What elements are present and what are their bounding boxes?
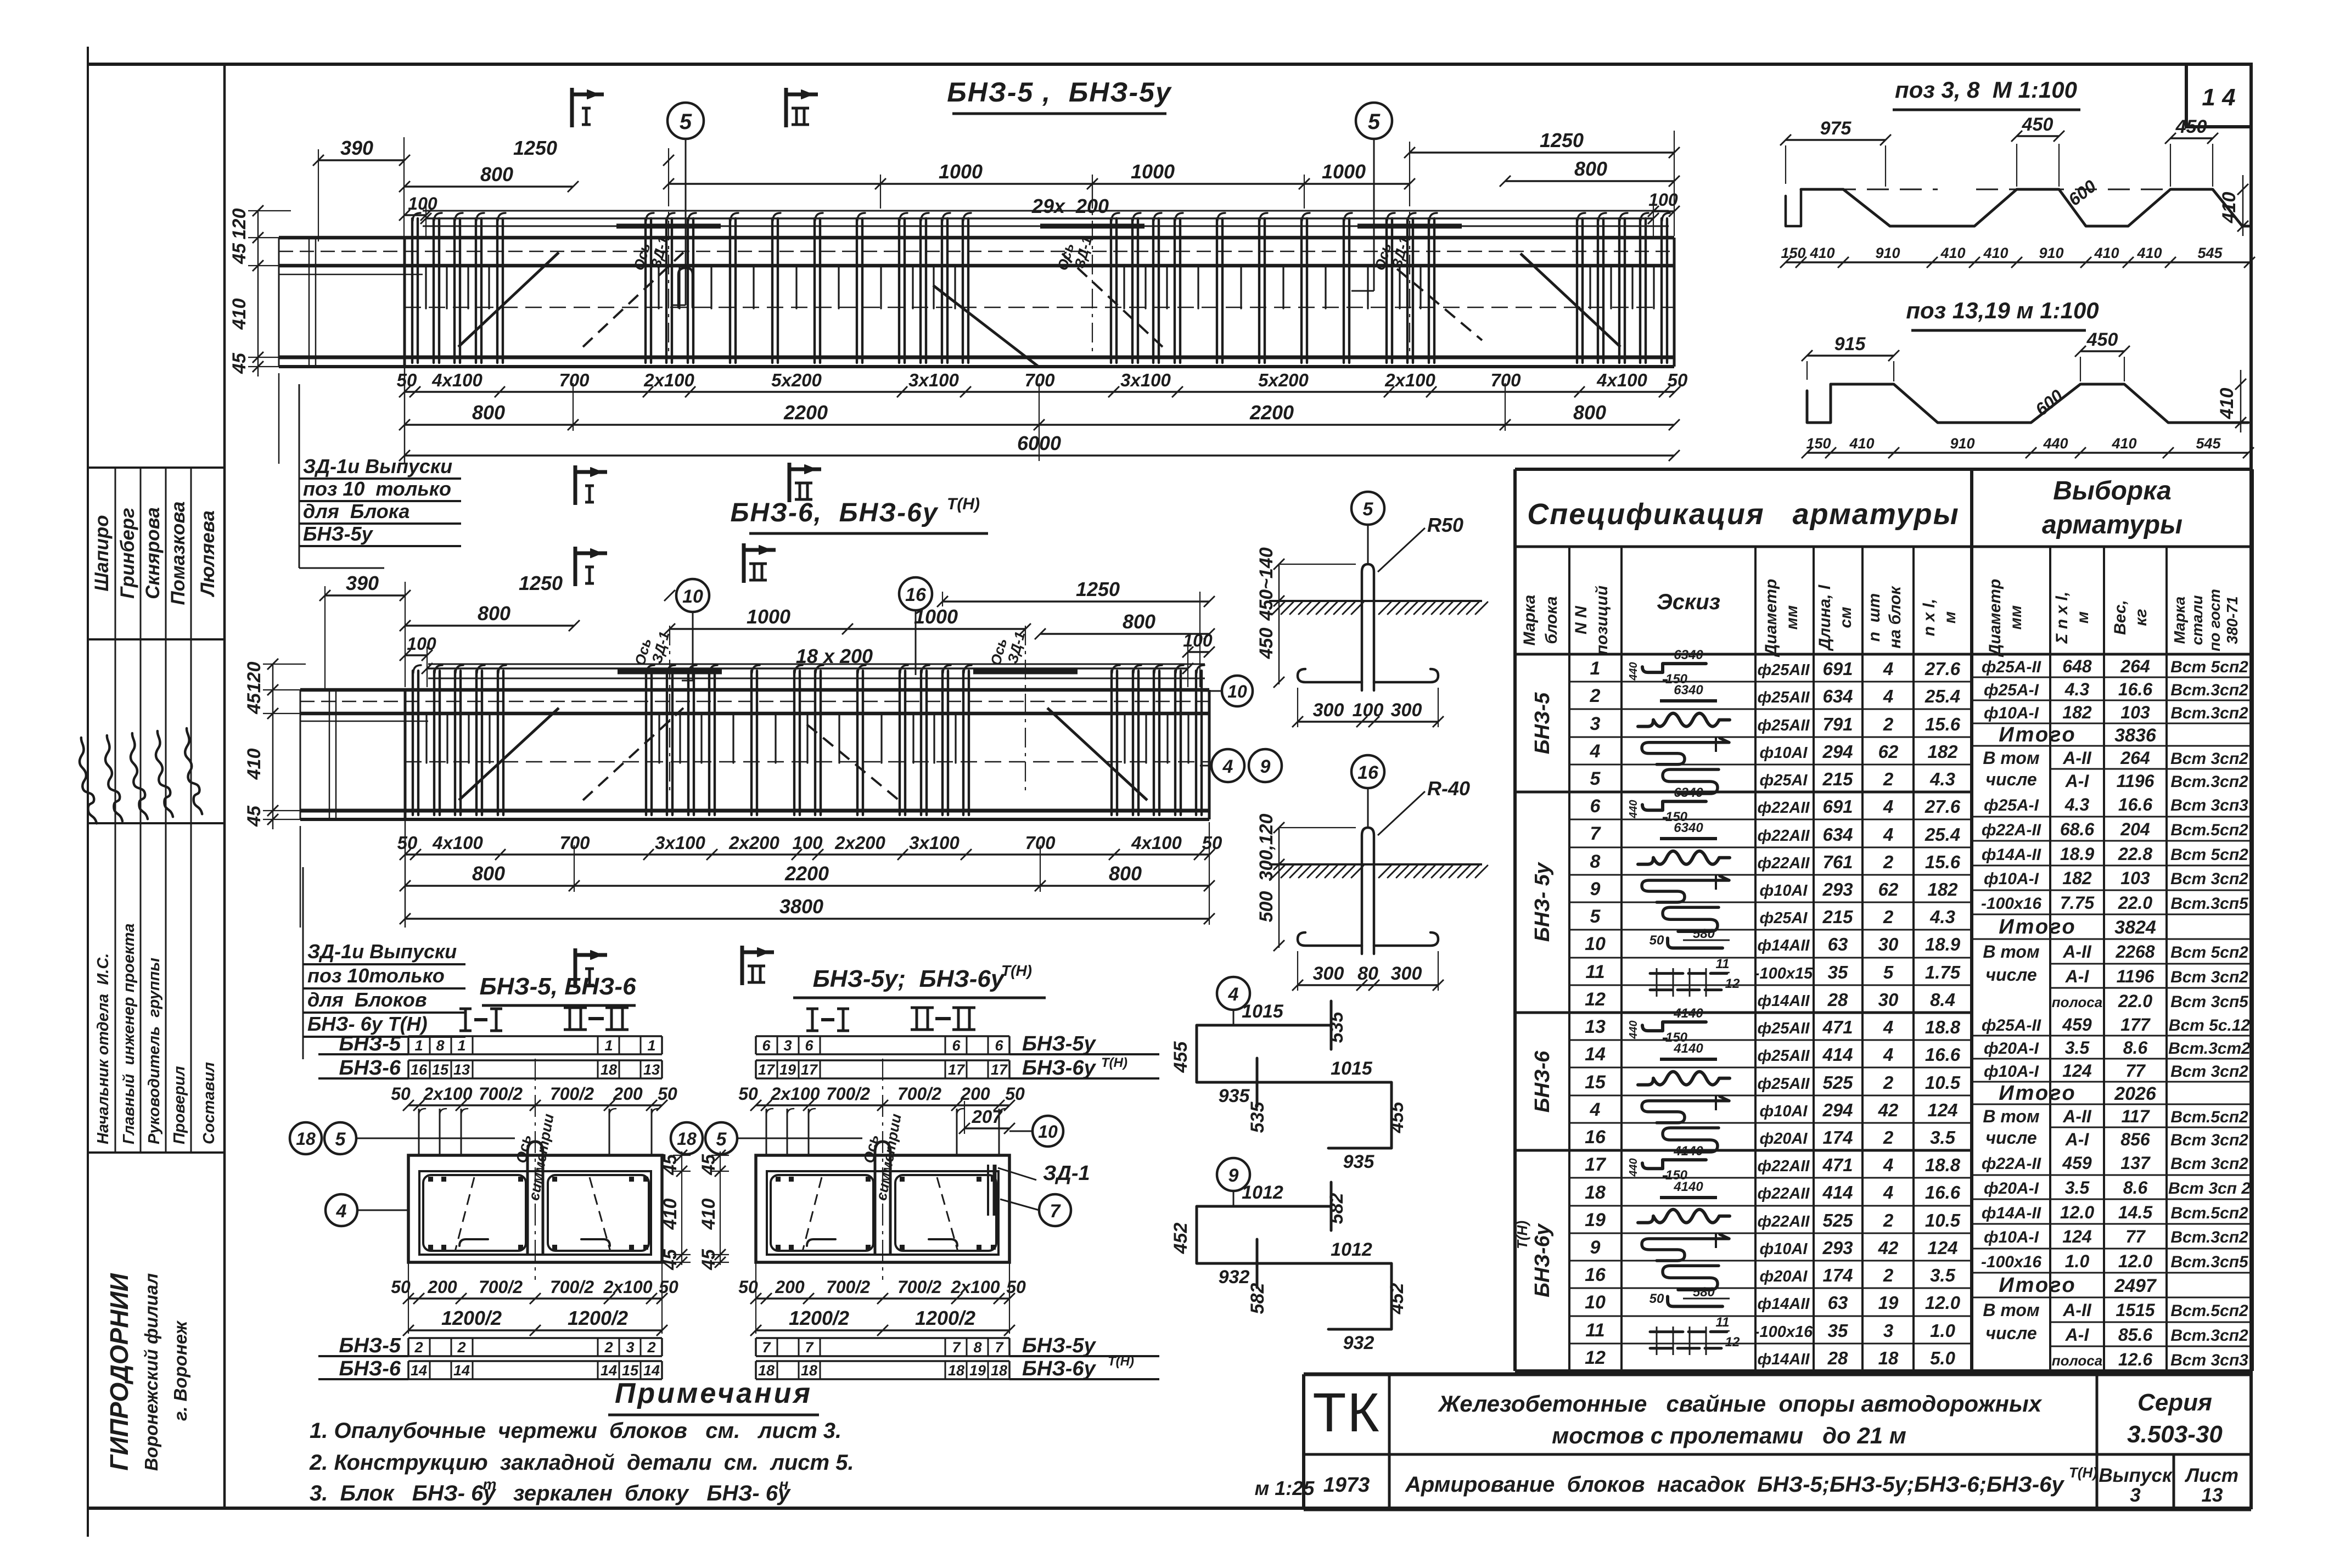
svg-text:Вст.5сп2: Вст.5сп2 — [2170, 821, 2248, 839]
section vertical dims 45 410 45 — [681, 1151, 682, 1265]
svg-text:120: 120 — [229, 209, 250, 240]
svg-text:856: 856 — [2120, 1129, 2150, 1149]
svg-text:5: 5 — [1368, 110, 1381, 134]
svg-text:450: 450 — [2022, 114, 2054, 135]
svg-text:Вст.3сп2: Вст.3сп2 — [2170, 681, 2248, 699]
svg-text:Т(Н): Т(Н) — [1101, 1055, 1127, 1070]
svg-text:16: 16 — [905, 585, 927, 605]
svg-text:535: 535 — [1326, 1011, 1347, 1043]
section outer box — [756, 1155, 1009, 1262]
svg-text:числе: числе — [1985, 1323, 2036, 1343]
svg-text:ф22АII: ф22АII — [1758, 855, 1810, 872]
svg-text:ф25АII: ф25АII — [1758, 1020, 1810, 1037]
svg-text:19: 19 — [1878, 1292, 1899, 1313]
svg-text:БНЗ-5: БНЗ-5 — [339, 1334, 401, 1357]
svg-text:Вст.5сп2: Вст.5сп2 — [2170, 1108, 2248, 1126]
section callout circles left — [290, 1122, 322, 1154]
svg-text:410: 410 — [2136, 245, 2162, 261]
svg-text:-100х16: -100х16 — [1981, 895, 2041, 913]
svg-text:62: 62 — [1878, 879, 1899, 900]
svg-text:по гост: по гост — [2206, 589, 2223, 651]
svg-text:3: 3 — [2130, 1485, 2141, 1506]
dim 100 left — [405, 214, 426, 216]
svg-text:1200/2: 1200/2 — [441, 1307, 502, 1329]
svg-text:ф10АI: ф10АI — [1760, 882, 1808, 900]
svg-text:Шапиро: Шапиро — [91, 515, 113, 591]
svg-text:264: 264 — [2120, 748, 2150, 768]
svg-text:7: 7 — [1050, 1201, 1062, 1222]
svg-text:5: 5 — [1363, 499, 1374, 520]
svg-text:14: 14 — [601, 1362, 617, 1379]
svg-text:45: 45 — [229, 352, 250, 374]
svg-text:ф22АII: ф22АII — [1758, 1157, 1810, 1175]
svg-text:Итого: Итого — [1999, 1274, 2076, 1297]
svg-text:12.0: 12.0 — [1925, 1292, 1961, 1313]
svg-text:Вст 3сп2: Вст 3сп2 — [2170, 968, 2248, 986]
svg-text:455: 455 — [1387, 1101, 1407, 1134]
svg-text:ф25АII: ф25АII — [1758, 689, 1810, 706]
svg-text:6340: 6340 — [1674, 820, 1703, 835]
dim 100 mid left — [405, 654, 427, 656]
svg-text:8.6: 8.6 — [2123, 1178, 2148, 1198]
bent bar diagram pos 4 — [1217, 977, 1250, 1010]
svg-text:11: 11 — [1585, 1320, 1604, 1341]
svg-text:1250: 1250 — [513, 137, 557, 159]
svg-text:1973: 1973 — [1323, 1474, 1370, 1497]
svg-text:Армирование блоков насадок: Армирование блоков насадок БНЗ-5;БНЗ-5у;… — [1405, 1473, 2064, 1497]
svg-text:215: 215 — [1822, 907, 1853, 927]
svg-text:3х100: 3х100 — [655, 833, 705, 853]
svg-text:числе: числе — [1985, 1128, 2036, 1148]
svg-text:932: 932 — [1343, 1333, 1374, 1353]
svg-text:Вст 5сп2: Вст 5сп2 — [2170, 846, 2248, 864]
svg-text:ф25А-I: ф25А-I — [1984, 681, 2039, 699]
svg-text:10.5: 10.5 — [1925, 1072, 1961, 1093]
svg-text:4: 4 — [1222, 756, 1233, 777]
svg-text:471: 471 — [1822, 1017, 1853, 1037]
svg-text:700/2: 700/2 — [826, 1277, 870, 1297]
svg-text:1: 1 — [414, 1037, 423, 1054]
svg-text:103: 103 — [2120, 702, 2150, 722]
svg-text:11: 11 — [1716, 1315, 1730, 1330]
svg-text:17: 17 — [1585, 1154, 1607, 1175]
svg-text:1250: 1250 — [1076, 578, 1120, 600]
svg-text:БНЗ-6: БНЗ-6 — [1531, 1050, 1554, 1112]
bent-up bar diagonals БНЗ-5 — [458, 252, 559, 347]
svg-text:3х100: 3х100 — [908, 370, 959, 390]
title block frame — [1304, 1373, 2251, 1376]
svg-text:300: 300 — [1391, 700, 1422, 721]
svg-text:арматуры: арматуры — [2042, 510, 2182, 539]
svg-text:ф10АI: ф10АI — [1760, 1240, 1808, 1258]
svg-text:450: 450 — [2175, 116, 2207, 137]
svg-text:для Блока: для Блока — [303, 500, 409, 522]
svg-text:1015: 1015 — [1331, 1058, 1373, 1079]
svg-text:4: 4 — [1883, 824, 1893, 845]
svg-text:1196: 1196 — [2117, 771, 2155, 791]
svg-text:16.6: 16.6 — [2118, 679, 2152, 699]
svg-text:45: 45 — [244, 693, 265, 715]
svg-text:582: 582 — [1326, 1193, 1347, 1224]
svg-text:БНЗ-6у: БНЗ-6у — [1022, 1357, 1097, 1380]
svg-text:ГИПРОДОРНИИ: ГИПРОДОРНИИ — [105, 1273, 133, 1470]
svg-text:12: 12 — [1585, 989, 1606, 1010]
bent bar diagram pos 9 — [1217, 1158, 1250, 1191]
svg-text:50: 50 — [1649, 1291, 1664, 1306]
svg-text:Лист: Лист — [2184, 1465, 2238, 1486]
svg-text:2х200: 2х200 — [834, 833, 885, 853]
svg-text:ф14АII: ф14АII — [1758, 1295, 1810, 1313]
svg-text:77: 77 — [2125, 1061, 2146, 1081]
svg-text:700/2: 700/2 — [897, 1084, 941, 1104]
bottom hooks in section windows — [807, 1239, 835, 1246]
svg-text:300: 300 — [1313, 700, 1344, 721]
svg-text:3: 3 — [1590, 713, 1601, 734]
svg-text:390: 390 — [346, 572, 379, 594]
svg-text:414: 414 — [1822, 1044, 1853, 1065]
svg-text:28: 28 — [1827, 1348, 1848, 1368]
svg-text:910: 910 — [1875, 245, 1900, 261]
svg-text:177: 177 — [2120, 1015, 2151, 1035]
rebar dots in section — [776, 1177, 781, 1182]
axis of symmetry — [882, 1059, 883, 1280]
svg-text:410: 410 — [1983, 245, 2008, 261]
svg-text:440: 440 — [1628, 662, 1640, 681]
svg-text:294: 294 — [1822, 1100, 1853, 1120]
section callout circles right — [1033, 1116, 1063, 1147]
svg-text:5х200: 5х200 — [771, 370, 822, 390]
svg-text:3х100: 3х100 — [909, 833, 960, 853]
svg-text:12.6: 12.6 — [2118, 1350, 2152, 1369]
svg-text:БНЗ-6у: БНЗ-6у — [1531, 1223, 1554, 1297]
hanger bars pos 16 short drops БНЗ-6 — [427, 715, 1188, 763]
svg-text:452: 452 — [1170, 1223, 1191, 1255]
svg-text:БНЗ-5, БНЗ-6: БНЗ-5, БНЗ-6 — [479, 973, 636, 1000]
svg-text:410: 410 — [1940, 245, 1965, 261]
svg-text:полоса: полоса — [2052, 1352, 2102, 1369]
svg-text:блока: блока — [1542, 596, 1561, 644]
axis of symmetry — [535, 1059, 536, 1280]
svg-text:Вст 5сп2: Вст 5сп2 — [2170, 658, 2248, 676]
svg-text:9: 9 — [1228, 1165, 1239, 1186]
spec table rows — [1569, 681, 1972, 683]
svg-text:Вст.3сп5: Вст.3сп5 — [2170, 895, 2249, 913]
embed plate axes ЗД-1 on beam БНЗ-6 — [618, 670, 722, 675]
svg-text:Составил: Составил — [200, 1062, 218, 1144]
svg-text:1000: 1000 — [914, 605, 958, 628]
svg-text:100: 100 — [792, 833, 823, 853]
svg-text:535: 535 — [1247, 1101, 1268, 1133]
section labels I-I II-II right group — [806, 1008, 818, 1010]
svg-text:2х100: 2х100 — [643, 370, 694, 390]
svg-text:800: 800 — [1574, 158, 1607, 180]
svg-text:19: 19 — [779, 1061, 796, 1078]
profile поз 3,8 dims — [1786, 139, 1886, 140]
svg-text:11: 11 — [1585, 962, 1604, 982]
svg-text:691: 691 — [1822, 796, 1853, 817]
svg-text:1012: 1012 — [1331, 1239, 1372, 1260]
svg-text:1250: 1250 — [1540, 129, 1584, 151]
svg-text:440: 440 — [1628, 1158, 1640, 1177]
svg-text:62: 62 — [1878, 741, 1899, 762]
stamp column grid — [89, 467, 225, 469]
svg-text:ф25АII: ф25АII — [1758, 661, 1810, 679]
svg-text:18: 18 — [758, 1362, 775, 1379]
svg-text:1.75: 1.75 — [1925, 962, 1961, 982]
svg-text:БНЗ-5: БНЗ-5 — [1531, 692, 1554, 754]
svg-text:В том: В том — [1983, 748, 2040, 768]
svg-text:545: 545 — [2197, 245, 2223, 261]
svg-text:124: 124 — [2062, 1061, 2092, 1081]
svg-text:7: 7 — [762, 1339, 771, 1356]
dim 100 right — [1653, 210, 1674, 212]
svg-text:450: 450 — [2086, 329, 2118, 350]
svg-text:6340: 6340 — [1674, 683, 1703, 698]
svg-text:1200/2: 1200/2 — [789, 1307, 849, 1329]
svg-text:4: 4 — [1590, 1099, 1601, 1120]
svg-text:10.5: 10.5 — [1925, 1210, 1961, 1230]
svg-text:14.5: 14.5 — [2118, 1202, 2153, 1222]
svg-text:БНЗ-5у; БНЗ-6у: БНЗ-5у; БНЗ-6у — [813, 965, 1006, 992]
svg-text:15: 15 — [622, 1362, 639, 1379]
svg-text:Серия: Серия — [2137, 1389, 2212, 1416]
svg-text:13: 13 — [1585, 1016, 1606, 1037]
svg-text:12: 12 — [1585, 1347, 1606, 1368]
svg-text:Вст 5с.12: Вст 5с.12 — [2169, 1016, 2251, 1035]
svg-text:15: 15 — [432, 1061, 449, 1078]
svg-text:Помазкова: Помазкова — [167, 501, 189, 605]
svg-text:15.6: 15.6 — [1925, 852, 1961, 872]
extension lines mid beam bottom dims — [574, 845, 575, 892]
svg-text:124: 124 — [1927, 1100, 1957, 1120]
svg-text:Эскиз: Эскиз — [1657, 590, 1720, 614]
vertical dim chain 120 45 410 45 left of beam БНЗ-6 — [272, 664, 274, 829]
svg-text:3. Блок БНЗ- 6у: 3. Блок БНЗ- 6у — [310, 1481, 496, 1505]
svg-text:77: 77 — [2125, 1227, 2146, 1246]
extension lines mid beam dims — [324, 586, 326, 689]
svg-text:Вст 3сп2: Вст 3сп2 — [2170, 1063, 2248, 1081]
svg-text:см: см — [1837, 607, 1855, 628]
svg-text:800: 800 — [478, 602, 510, 625]
svg-text:124: 124 — [1927, 1238, 1957, 1258]
svg-text:18: 18 — [801, 1362, 817, 1379]
svg-text:3800: 3800 — [779, 895, 823, 918]
svg-text:5: 5 — [716, 1129, 727, 1150]
dim 800 mid right — [1040, 633, 1209, 634]
svg-text:68.6: 68.6 — [2060, 819, 2094, 839]
svg-text:29х 200: 29х 200 — [1031, 195, 1109, 217]
svg-text:Вст 3сп2: Вст 3сп2 — [2170, 1155, 2248, 1173]
central hairpin bar — [875, 1142, 890, 1254]
svg-text:16.6: 16.6 — [2118, 795, 2152, 814]
svg-text:452: 452 — [1387, 1283, 1407, 1315]
extension lines top beam dims — [318, 149, 319, 241]
svg-text:4х100: 4х100 — [431, 370, 482, 390]
svg-text:17: 17 — [948, 1061, 966, 1078]
svg-text:мостов с пролетами до 21 м: мостов с пролетами до 21 м — [1552, 1423, 1906, 1448]
svg-text:410: 410 — [2111, 435, 2136, 452]
svg-text:4: 4 — [336, 1201, 347, 1222]
svg-text:на блок: на блок — [1886, 586, 1904, 649]
svg-text:50: 50 — [397, 833, 418, 853]
stirrup spacing dim row БНЗ-6 — [405, 853, 1210, 855]
hook-zone bars (pos 10) — [423, 210, 1669, 212]
svg-text:25.4: 25.4 — [1925, 686, 1960, 706]
svg-text:200: 200 — [427, 1277, 457, 1297]
svg-text:932: 932 — [1219, 1267, 1250, 1288]
svg-text:2: 2 — [647, 1339, 655, 1356]
svg-text:2: 2 — [1883, 907, 1894, 927]
svg-text:18: 18 — [1878, 1348, 1899, 1368]
svg-text:Вст.5сп2: Вст.5сп2 — [2170, 1204, 2248, 1222]
svg-text:ф10А-I: ф10А-I — [1984, 704, 2039, 722]
svg-text:Марка: Марка — [1521, 595, 1539, 646]
svg-text:Выпуск: Выпуск — [2099, 1465, 2173, 1486]
svg-text:Скнярова: Скнярова — [142, 507, 164, 599]
svg-text:264: 264 — [2120, 656, 2150, 676]
hanger bars pos 5 short drops БНЗ-5 — [426, 267, 1654, 308]
embed plate axes ЗД-1 on beam БНЗ-5 — [616, 224, 721, 229]
svg-text:2: 2 — [1883, 1265, 1894, 1285]
svg-text:700/2: 700/2 — [550, 1084, 594, 1104]
dim 800 top right — [1505, 180, 1674, 182]
vertical dim chain 120 45 410 45 left of beam БНЗ-5 — [257, 211, 259, 376]
beam БНЗ-5 outline — [279, 236, 1674, 240]
svg-text:2: 2 — [1883, 852, 1894, 872]
svg-text:9: 9 — [1590, 1237, 1601, 1258]
svg-text:1200/2: 1200/2 — [915, 1307, 975, 1329]
svg-text:204: 204 — [2120, 819, 2150, 839]
svg-text:410: 410 — [2217, 388, 2237, 420]
svg-text:Итого: Итого — [1999, 723, 2076, 746]
svg-text:1.0: 1.0 — [2065, 1251, 2090, 1271]
svg-text:БНЗ-5: БНЗ-5 — [339, 1032, 401, 1055]
svg-text:Главный инженер проекта: Главный инженер проекта — [120, 923, 138, 1144]
svg-text:18: 18 — [296, 1129, 316, 1149]
svg-text:Марка: Марка — [2171, 597, 2188, 644]
svg-text:761: 761 — [1822, 852, 1853, 872]
svg-text:2200: 2200 — [784, 862, 829, 885]
svg-text:293: 293 — [1822, 1238, 1853, 1258]
svg-text:700/2: 700/2 — [826, 1084, 870, 1104]
svg-text:12: 12 — [1725, 1335, 1740, 1350]
svg-text:Вст.3сп2: Вст.3сп2 — [2170, 704, 2248, 722]
svg-text:2х200: 2х200 — [728, 833, 779, 853]
svg-text:4140: 4140 — [1673, 1041, 1703, 1056]
dim row 800 2200 800 mid — [405, 885, 1209, 886]
svg-text:ф25АI: ф25АI — [1760, 772, 1808, 789]
section stirrup cage — [419, 1171, 651, 1255]
svg-text:10: 10 — [682, 586, 703, 607]
svg-text:Проверил: Проверил — [171, 1066, 188, 1144]
svg-text:410: 410 — [2094, 245, 2119, 261]
svg-text:ф14АII: ф14АII — [1758, 937, 1810, 954]
svg-text:2х100: 2х100 — [423, 1084, 473, 1104]
svg-text:582: 582 — [1247, 1283, 1268, 1314]
svg-text:2026: 2026 — [2114, 1083, 2157, 1104]
svg-text:ф20А-I: ф20А-I — [1984, 1039, 2039, 1058]
section dim row 1200/2 1200/2 — [408, 1329, 662, 1331]
svg-text:Гринберг: Гринберг — [117, 508, 138, 599]
svg-text:числе: числе — [1985, 965, 2036, 985]
svg-text:7.75: 7.75 — [2060, 893, 2095, 913]
svg-text:8.6: 8.6 — [2123, 1038, 2148, 1058]
svg-text:18: 18 — [991, 1362, 1007, 1379]
svg-text:50: 50 — [1649, 933, 1664, 948]
callout circle 5 left — [667, 103, 704, 139]
svg-text:1: 1 — [604, 1037, 613, 1054]
svg-text:700/2: 700/2 — [550, 1277, 594, 1297]
callout circles 4 and 9 right end БНЗ-6 — [1211, 749, 1244, 782]
svg-text:18.8: 18.8 — [1925, 1017, 1961, 1037]
svg-text:13: 13 — [643, 1061, 660, 1078]
callout circle 10 over БНЗ-6 — [676, 579, 709, 612]
sheet frame — [87, 47, 89, 1537]
svg-text:915: 915 — [1834, 334, 1866, 355]
tag strips right group bottom — [756, 1337, 1009, 1339]
svg-text:поз 10 только: поз 10 только — [303, 477, 451, 500]
svg-text:Вст.3ст2: Вст.3ст2 — [2168, 1039, 2251, 1058]
svg-text:2х100: 2х100 — [1384, 370, 1435, 390]
svg-text:ф10А-I: ф10А-I — [1984, 870, 2039, 888]
svg-text:2: 2 — [1883, 769, 1894, 789]
svg-text:1000: 1000 — [939, 160, 983, 183]
svg-text:22.8: 22.8 — [2118, 844, 2152, 864]
svg-text:Диаметр: Диаметр — [1762, 579, 1780, 658]
svg-text:16: 16 — [1357, 762, 1379, 783]
dim 800 mid left — [405, 625, 574, 626]
svg-text:4: 4 — [1883, 686, 1893, 706]
svg-text:85.6: 85.6 — [2118, 1325, 2152, 1345]
section flag I below beam БНЗ-6 — [574, 948, 577, 988]
svg-text:634: 634 — [1822, 686, 1853, 706]
section bottom dim row 50 200 700/2 700/2 2x100 50 — [756, 1297, 1009, 1299]
svg-text:поз 13,19 м 1:100: поз 13,19 м 1:100 — [1906, 297, 2099, 323]
svg-text:1015: 1015 — [1242, 1001, 1284, 1022]
central hairpin bar — [528, 1142, 543, 1254]
bent-up bar diagonals БНЗ-6 — [459, 708, 559, 800]
svg-text:БНЗ-6: БНЗ-6 — [339, 1357, 401, 1380]
svg-text:м: м — [1941, 611, 1959, 623]
profile поз 13,19 dims — [1807, 355, 1894, 356]
svg-text:3836: 3836 — [2114, 725, 2157, 746]
svg-text:А-I: А-I — [2065, 1325, 2090, 1345]
svg-text:11: 11 — [1716, 957, 1730, 971]
svg-text:позиций: позиций — [1593, 586, 1611, 655]
svg-text:200: 200 — [613, 1084, 643, 1104]
svg-text:А-II: А-II — [2062, 1106, 2092, 1126]
svg-text:63: 63 — [1828, 1292, 1848, 1313]
dim 1250 top right — [1410, 151, 1674, 153]
svg-text:для Блоков: для Блоков — [307, 988, 427, 1011]
svg-text:50: 50 — [1005, 1084, 1025, 1104]
svg-text:Вст 3сп 2: Вст 3сп 2 — [2168, 1179, 2251, 1198]
profile поз 3,8 polyline — [1786, 189, 1801, 226]
svg-text:БНЗ-6, БНЗ-6у: БНЗ-6, БНЗ-6у — [730, 498, 938, 527]
svg-text:8: 8 — [973, 1339, 981, 1356]
svg-text:1. Опалубочные чертежи блоко: 1. Опалубочные чертежи блоков см. лист 3… — [310, 1419, 841, 1443]
svg-text:691: 691 — [1822, 659, 1853, 679]
svg-text:Вст.3сп2: Вст.3сп2 — [2170, 1327, 2248, 1345]
svg-text:15.6: 15.6 — [1925, 714, 1961, 734]
svg-text:8: 8 — [436, 1037, 444, 1054]
svg-text:182: 182 — [1927, 741, 1958, 762]
svg-text:Примечания: Примечания — [615, 1378, 812, 1409]
svg-text:Вст 5сп2: Вст 5сп2 — [2170, 943, 2248, 962]
section flag II above beam БНЗ-6 — [742, 543, 746, 583]
svg-text:Т(Н): Т(Н) — [1514, 1221, 1530, 1249]
svg-text:4: 4 — [1883, 1155, 1893, 1175]
